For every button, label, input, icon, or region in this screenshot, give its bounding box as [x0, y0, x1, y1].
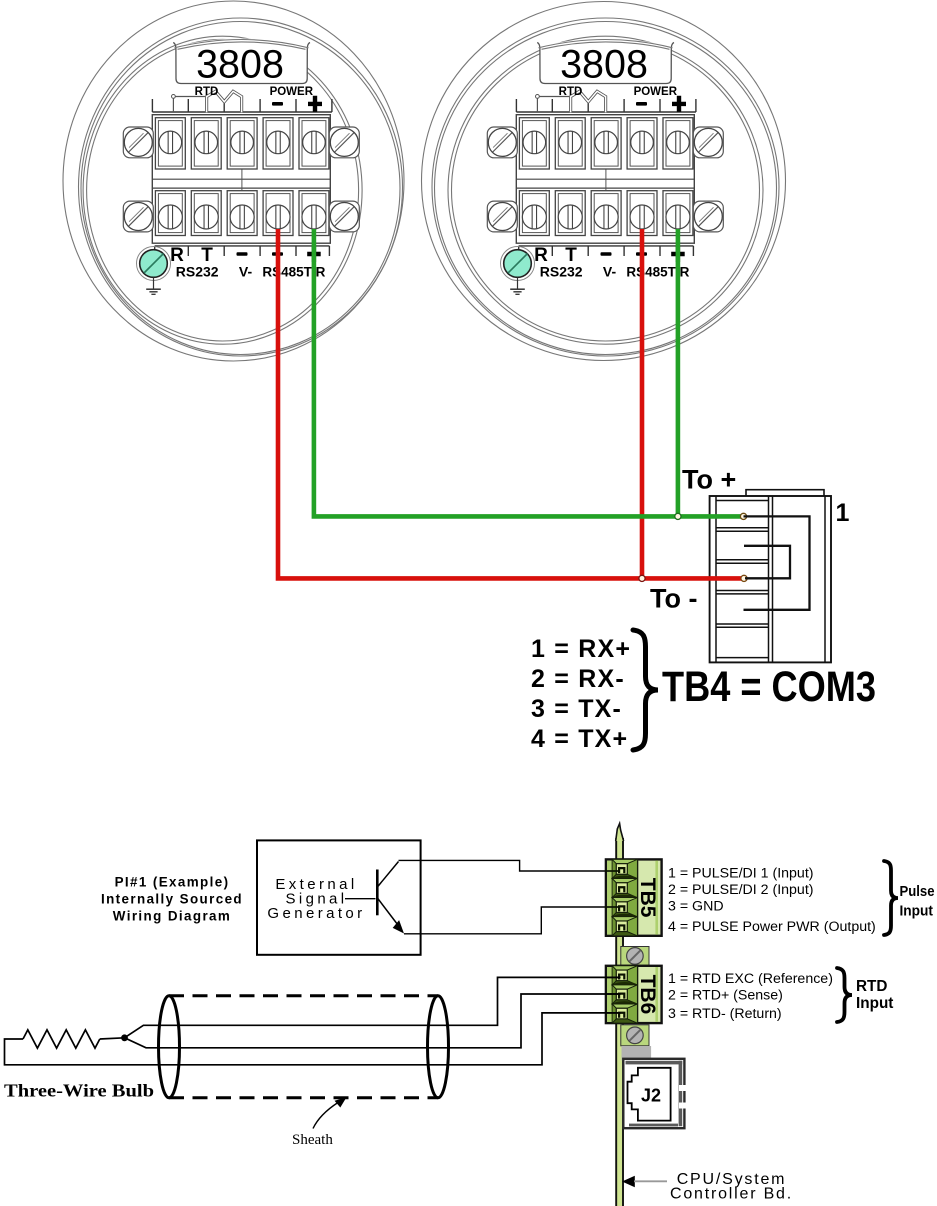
svg-text:2 = RTD+ (Sense): 2 = RTD+ (Sense): [668, 988, 783, 1004]
svg-text:TB5: TB5: [636, 878, 659, 918]
svg-text:Pulse: Pulse: [900, 883, 935, 900]
svg-text:4 = PULSE Power PWR (Output): 4 = PULSE Power PWR (Output): [668, 919, 876, 935]
svg-text:3 = TX-: 3 = TX-: [531, 695, 622, 723]
svg-text:3 = GND: 3 = GND: [668, 899, 724, 915]
svg-text:To -: To -: [650, 584, 697, 614]
svg-text:J2: J2: [641, 1086, 661, 1106]
svg-text:PI#1 (Example): PI#1 (Example): [115, 874, 230, 889]
svg-text:TB4 = COM3: TB4 = COM3: [662, 663, 876, 711]
svg-text:4 = TX+: 4 = TX+: [531, 725, 628, 753]
svg-text:Wiring Diagram: Wiring Diagram: [113, 908, 231, 923]
svg-text:Internally Sourced: Internally Sourced: [101, 891, 243, 906]
svg-text:2 = RX-: 2 = RX-: [531, 665, 625, 693]
svg-text:Controller Bd.: Controller Bd.: [670, 1186, 793, 1203]
svg-text:1 = RX+: 1 = RX+: [531, 635, 631, 663]
svg-text:2 = PULSE/DI 2 (Input): 2 = PULSE/DI 2 (Input): [668, 882, 814, 898]
svg-text:1: 1: [836, 499, 850, 527]
svg-text:Three-Wire Bulb: Three-Wire Bulb: [4, 1081, 154, 1101]
svg-text:Generator: Generator: [267, 905, 365, 922]
svg-text:Input: Input: [856, 995, 893, 1012]
svg-text:3 = RTD- (Return): 3 = RTD- (Return): [668, 1006, 782, 1022]
svg-text:To +: To +: [682, 465, 736, 495]
svg-text:Sheath: Sheath: [292, 1132, 333, 1148]
svg-text:1 = RTD EXC (Reference): 1 = RTD EXC (Reference): [668, 971, 833, 987]
svg-text:1 = PULSE/DI 1 (Input): 1 = PULSE/DI 1 (Input): [668, 866, 814, 882]
svg-text:RTD: RTD: [856, 978, 887, 995]
svg-text:TB6: TB6: [636, 975, 659, 1015]
svg-text:Input: Input: [900, 903, 934, 920]
